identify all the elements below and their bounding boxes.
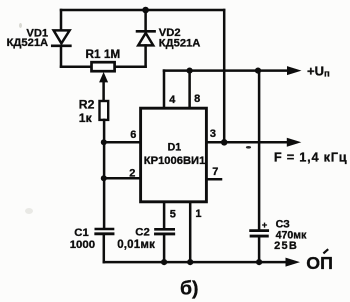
svg-text:1к: 1к (79, 111, 93, 125)
svg-text:+Uп: +Uп (307, 63, 330, 79)
svg-text:КР1006ВИ1: КР1006ВИ1 (144, 155, 206, 167)
svg-text:3: 3 (210, 128, 216, 140)
svg-text:4: 4 (169, 94, 176, 106)
svg-text:б): б) (180, 278, 199, 300)
svg-text:25В: 25В (274, 240, 298, 252)
svg-text:1000: 1000 (70, 239, 95, 251)
svg-text:ОП: ОП (306, 253, 333, 273)
svg-text:КД521А: КД521А (7, 37, 49, 49)
svg-text:7: 7 (212, 166, 218, 178)
svg-text:1: 1 (195, 208, 201, 220)
svg-text:СЗ: СЗ (276, 218, 291, 230)
svg-text:2: 2 (129, 167, 135, 179)
svg-text:С2: С2 (135, 227, 149, 239)
svg-text:5: 5 (170, 209, 176, 221)
svg-text:0,01мк: 0,01мк (117, 239, 155, 251)
svg-text:R1 1M: R1 1M (86, 47, 121, 61)
svg-text:R2: R2 (79, 97, 95, 111)
svg-text:+: + (262, 220, 268, 231)
svg-text:С1: С1 (74, 227, 88, 239)
svg-text:F = 1,4 кГц: F = 1,4 кГц (274, 150, 348, 165)
svg-text:6: 6 (130, 129, 136, 141)
svg-text:D1: D1 (168, 142, 182, 154)
svg-text:8: 8 (194, 93, 200, 105)
svg-text:КД521А: КД521А (159, 38, 201, 50)
